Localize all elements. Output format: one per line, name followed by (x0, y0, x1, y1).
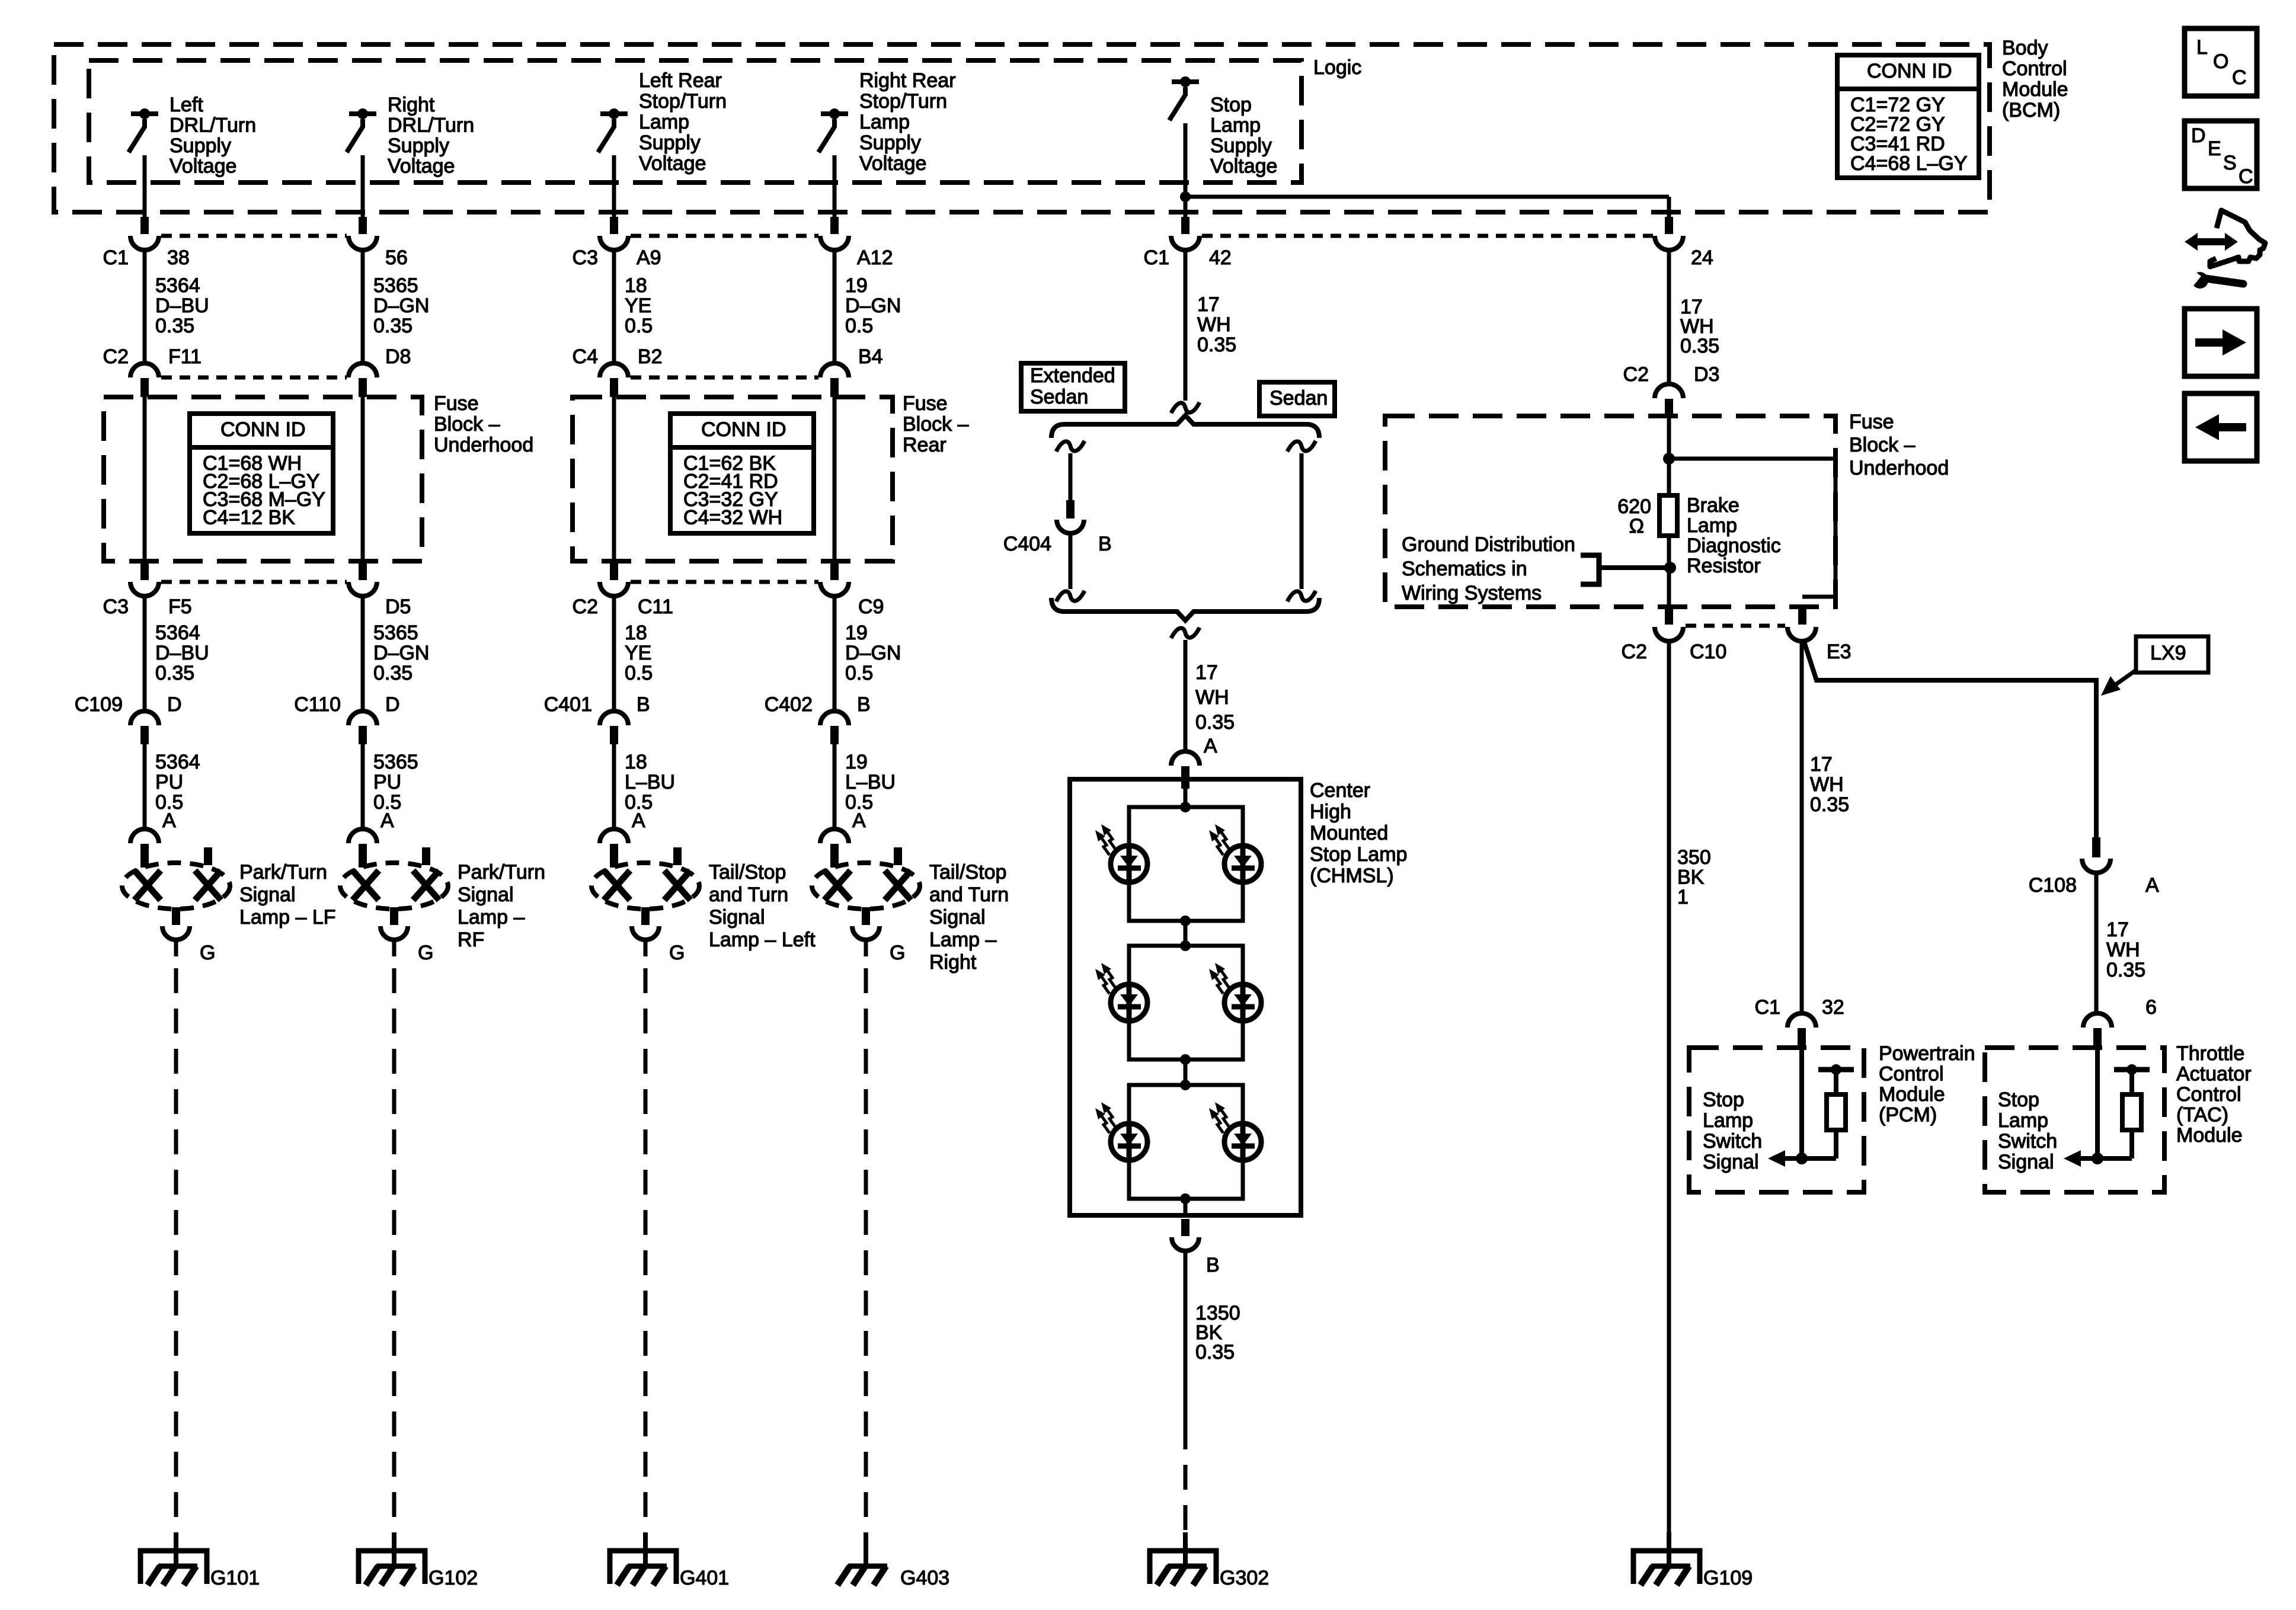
svg-text:D–BU: D–BU (155, 295, 209, 317)
svg-text:High: High (1310, 801, 1351, 823)
svg-text:Block –: Block – (1849, 434, 1916, 456)
svg-text:Right Rear: Right Rear (859, 69, 956, 92)
svg-text:Stop/Turn: Stop/Turn (859, 90, 947, 113)
svg-text:Extended: Extended (1030, 364, 1115, 387)
wire E3 diagonal to TAC branch (1803, 640, 2096, 837)
svg-text:0.35: 0.35 (373, 315, 412, 337)
wire corner down x=2816 (1667, 197, 1671, 217)
svg-text:C4=68 L–GY: C4=68 L–GY (1850, 152, 1968, 175)
dotted connector line row2 left pair (161, 376, 347, 380)
Center High Mounted Stop Lamp (CHMSL) box (1070, 779, 1301, 1215)
svg-text:Signal: Signal (1703, 1151, 1759, 1173)
svg-text:1: 1 (1677, 886, 1689, 908)
ground distribution bracket (1581, 555, 1599, 584)
svg-text:C2: C2 (1623, 363, 1649, 386)
svg-text:A: A (632, 809, 645, 832)
svg-text:Park/Turn: Park/Turn (239, 861, 327, 884)
wire through fuse block x=1036 (612, 396, 616, 565)
svg-text:Stop: Stop (1703, 1089, 1744, 1111)
svg-text:Switch: Switch (1703, 1130, 1762, 1153)
svg-text:Supply: Supply (639, 132, 701, 154)
Tail/Stop and Turn Signal Lamp - Right (812, 863, 920, 909)
resistor 620 ohm Brake Lamp Diagnostic Resistor (1659, 495, 1677, 536)
svg-text:B: B (1206, 1254, 1220, 1276)
wire C1-42 down to break (1184, 249, 1188, 401)
svg-text:5364: 5364 (155, 751, 200, 773)
svg-text:0.35: 0.35 (155, 662, 194, 684)
svg-text:E3: E3 (1827, 641, 1851, 663)
svg-text:D–GN: D–GN (373, 295, 429, 317)
svg-text:G109: G109 (1703, 1567, 1753, 1589)
junction ground distribution (1664, 562, 1676, 574)
svg-text:0.5: 0.5 (845, 662, 873, 684)
svg-text:19: 19 (845, 622, 868, 644)
ground G102 (392, 1532, 396, 1569)
LED right y=1927 (1224, 1124, 1261, 1160)
svg-text:CONN ID: CONN ID (220, 418, 306, 441)
svg-text:17: 17 (1810, 753, 1833, 776)
wire row3-row4 x=612 (361, 596, 365, 711)
svg-text:Lamp: Lamp (1998, 1109, 2048, 1132)
svg-text:19: 19 (845, 751, 868, 773)
node stop lamp branch (1180, 191, 1191, 202)
svg-text:C3: C3 (573, 247, 598, 269)
svg-text:D8: D8 (385, 345, 411, 368)
wire row1-row2 x=244 (143, 249, 147, 364)
svg-text:5364: 5364 (155, 622, 200, 644)
wire group3 to box bottom (1184, 1199, 1188, 1215)
svg-text:WH: WH (1195, 686, 1229, 709)
svg-text:17: 17 (1195, 661, 1218, 684)
wire row4-A x=1408 (833, 744, 837, 829)
svg-text:Fuse: Fuse (1849, 411, 1894, 433)
svg-text:(PCM): (PCM) (1879, 1104, 1937, 1126)
connector row 4: inline connectors (130, 711, 159, 725)
svg-text:B4: B4 (858, 345, 883, 368)
bypass wire down (1834, 459, 1838, 597)
wire to CHMSL A (1184, 640, 1188, 751)
svg-text:32: 32 (1822, 996, 1844, 1019)
svg-text:F11: F11 (168, 345, 202, 368)
svg-text:C108: C108 (2029, 874, 2077, 897)
wire break right branch top (1287, 441, 1316, 452)
svg-text:Left Rear: Left Rear (639, 69, 722, 92)
switch Right Rear Stop/Turn Lamp Supply Voltage (821, 111, 848, 116)
LED left y=1458 (1111, 846, 1147, 882)
wire break above brace (1171, 402, 1200, 413)
svg-text:5365: 5365 (373, 622, 418, 644)
wire break below brace (1171, 628, 1200, 638)
svg-text:C9: C9 (858, 596, 884, 618)
ground G101 (174, 1532, 178, 1569)
svg-text:0.35: 0.35 (1195, 1341, 1235, 1363)
svg-text:Stop/Turn: Stop/Turn (639, 90, 727, 113)
switch Right DRL/Turn Supply Voltage (349, 111, 376, 116)
svg-text:C1: C1 (1755, 996, 1780, 1019)
svg-text:5364: 5364 (155, 274, 200, 297)
svg-text:Control: Control (1879, 1063, 1944, 1086)
svg-text:Supply: Supply (388, 135, 449, 157)
svg-text:38: 38 (167, 247, 190, 269)
svg-text:Right: Right (388, 94, 435, 116)
wire through fuse block x=244 (143, 396, 147, 565)
svg-text:Lamp: Lamp (1210, 114, 1261, 137)
connector B CHMSL (1172, 1237, 1199, 1251)
svg-text:DRL/Turn: DRL/Turn (388, 114, 474, 137)
wire row4-A x=612 (361, 744, 365, 829)
svg-text:0.35: 0.35 (373, 662, 412, 684)
svg-text:Lamp –: Lamp – (458, 906, 525, 929)
ground G302 (1183, 1532, 1188, 1569)
svg-text:D: D (167, 693, 182, 716)
svg-text:YE: YE (625, 642, 651, 664)
svg-text:G: G (418, 942, 433, 964)
svg-text:L–BU: L–BU (625, 771, 675, 793)
svg-text:CONN ID: CONN ID (701, 418, 786, 441)
svg-text:Signal: Signal (929, 906, 986, 929)
Fuse Block - Underhood dashed box (104, 397, 422, 561)
wire switch to C-row1 x=1408 (833, 155, 837, 217)
svg-text:6: 6 (2145, 996, 2157, 1019)
svg-text:DRL/Turn: DRL/Turn (170, 114, 256, 137)
svg-text:B: B (857, 693, 871, 716)
svg-text:Ground Distribution: Ground Distribution (1402, 533, 1575, 556)
svg-text:D–GN: D–GN (845, 642, 901, 664)
svg-text:Lamp –: Lamp – (929, 929, 996, 951)
connector C108 (2082, 859, 2110, 873)
svg-text:D: D (385, 693, 400, 716)
wire E3 to PCM (1800, 640, 1804, 1013)
svg-text:Voltage: Voltage (639, 152, 706, 175)
connector A CHMSL (1171, 751, 1200, 766)
wire switch to C-row1 x=244 (143, 155, 147, 217)
svg-text:0.35: 0.35 (2106, 959, 2145, 981)
svg-text:C4=32 WH: C4=32 WH (683, 507, 782, 529)
svg-text:17: 17 (2106, 918, 2129, 941)
svg-text:C109: C109 (75, 693, 123, 716)
svg-text:C401: C401 (544, 693, 592, 716)
dotted connector line C10-E3 (1686, 624, 1785, 628)
svg-text:17: 17 (1197, 293, 1220, 316)
connector E3 (1787, 627, 1816, 641)
ground G403 (864, 1532, 868, 1569)
wire right branch (Sedan) (1300, 453, 1304, 589)
svg-text:L: L (2196, 36, 2208, 59)
wire row3-row4 x=1036 (612, 596, 616, 711)
svg-text:Block –: Block – (434, 413, 500, 436)
svg-text:0.35: 0.35 (1197, 334, 1236, 356)
svg-text:0.35: 0.35 (155, 315, 194, 337)
svg-text:Block –: Block – (903, 413, 969, 436)
svg-text:Lamp: Lamp (639, 111, 689, 133)
svg-text:(BCM): (BCM) (2002, 99, 2060, 121)
svg-text:WH: WH (1197, 313, 1231, 336)
svg-text:Voltage: Voltage (388, 155, 455, 178)
TAC stop lamp switch signal circuit (2095, 1050, 2100, 1158)
connector 6 TAC (2083, 1013, 2112, 1028)
svg-text:O: O (2213, 50, 2228, 73)
svg-text:L–BU: L–BU (845, 771, 896, 793)
svg-text:Underhood: Underhood (1849, 457, 1949, 479)
svg-text:C4=12 BK: C4=12 BK (203, 507, 295, 529)
svg-text:0.5: 0.5 (625, 662, 653, 684)
svg-text:C404: C404 (1003, 533, 1051, 555)
svg-text:Module: Module (2002, 78, 2068, 101)
wire row1-row2 x=612 (361, 249, 365, 364)
svg-text:350: 350 (1677, 846, 1711, 869)
icon LOC box (2185, 28, 2257, 96)
bypass wire right (1669, 457, 1835, 461)
svg-text:LX9: LX9 (2150, 642, 2186, 664)
Extended Sedan tag box (1021, 363, 1125, 411)
svg-text:Tail/Stop: Tail/Stop (929, 861, 1006, 884)
svg-text:Left: Left (170, 94, 203, 116)
wire row1-row2 x=1036 (612, 249, 616, 364)
svg-text:Body: Body (2002, 37, 2048, 59)
svg-text:C1: C1 (1144, 247, 1169, 269)
dotted connector line row3 mid pair (631, 580, 818, 584)
connector row 2: fuse block inputs (130, 363, 159, 377)
svg-text:D: D (2191, 124, 2206, 147)
svg-text:PU: PU (373, 771, 401, 793)
wire row3-row4 x=1408 (833, 596, 837, 711)
svg-text:Signal: Signal (239, 884, 296, 906)
svg-text:Lamp: Lamp (1703, 1109, 1753, 1132)
svg-text:A: A (380, 809, 394, 832)
pin C404 B (1066, 500, 1075, 518)
svg-text:C2: C2 (103, 345, 129, 368)
svg-text:0.5: 0.5 (845, 315, 873, 337)
PCM stop lamp switch signal circuit (1799, 1050, 1804, 1158)
svg-text:Module: Module (1879, 1083, 1945, 1106)
svg-text:D–BU: D–BU (155, 642, 209, 664)
svg-text:Fuse: Fuse (434, 392, 479, 415)
connector row 5: lamp A connectors (130, 829, 159, 843)
harness option brace bottom (1051, 598, 1319, 620)
svg-text:WH: WH (2106, 939, 2140, 961)
LX9 tag box (2136, 636, 2208, 673)
svg-text:F5: F5 (168, 596, 192, 618)
svg-text:Schematics in: Schematics in (1402, 558, 1527, 580)
switch Left DRL/Turn Supply Voltage (131, 111, 158, 116)
svg-text:Center: Center (1310, 779, 1370, 802)
LED group rect y=1596 (1129, 946, 1243, 1060)
svg-text:18: 18 (625, 622, 647, 644)
wire left branch lower (1069, 533, 1073, 589)
svg-text:and Turn: and Turn (709, 884, 788, 906)
Powertrain Control Module (PCM) dashed box (1689, 1048, 1864, 1192)
svg-text:A: A (2145, 874, 2159, 897)
svg-text:E: E (2208, 137, 2221, 160)
pin C108 A (2092, 837, 2100, 857)
LED left y=1927 (1111, 1124, 1147, 1160)
svg-text:(CHMSL): (CHMSL) (1310, 865, 1394, 887)
icon arrow-left box (2185, 393, 2257, 461)
CONN ID table (fuse block rear) (670, 414, 814, 533)
svg-text:C2: C2 (573, 596, 598, 618)
LED right y=1458 (1224, 846, 1261, 882)
svg-text:Signal: Signal (1998, 1151, 2054, 1173)
dotted connector line row1 right pair (1202, 234, 1653, 238)
pin B CHMSL (1181, 1219, 1189, 1236)
wire break left branch top (1056, 441, 1085, 452)
svg-text:D–GN: D–GN (373, 642, 429, 664)
svg-text:A: A (852, 809, 866, 832)
connector row 3: fuse block outputs (140, 563, 149, 580)
svg-text:PU: PU (155, 771, 183, 793)
svg-text:0.35: 0.35 (1195, 711, 1235, 734)
svg-text:C4: C4 (573, 345, 598, 368)
svg-text:Park/Turn: Park/Turn (458, 861, 545, 884)
Body Control Module (BCM) dashed box (54, 44, 1990, 212)
svg-text:18: 18 (625, 751, 647, 773)
icon arrow-right box (2185, 309, 2257, 376)
dotted connector line row1 mid pair (631, 234, 818, 238)
wire D3 to resistor (1667, 416, 1671, 495)
wire stop switch down (1184, 123, 1188, 217)
svg-text:B: B (1098, 533, 1112, 555)
wire row3-row4 x=244 (143, 596, 147, 711)
CONN ID table (fuse block underhood) (190, 414, 333, 533)
switch Left Rear Stop/Turn Lamp Supply Voltage (600, 111, 628, 116)
wire row4-A x=244 (143, 744, 147, 829)
ground G401 (643, 1532, 648, 1569)
svg-text:WH: WH (1810, 773, 1844, 796)
svg-text:56: 56 (385, 247, 408, 269)
svg-text:YE: YE (625, 295, 651, 317)
wire left branch (Extended Sedan) (1069, 453, 1073, 500)
svg-text:Ω: Ω (1629, 515, 1644, 537)
svg-text:Rear: Rear (903, 434, 946, 456)
wire switch to C-row1 x=612 (361, 155, 365, 217)
svg-text:19: 19 (845, 274, 868, 297)
icon DESC box (2185, 121, 2257, 188)
svg-text:Powertrain: Powertrain (1879, 1042, 1975, 1065)
svg-text:Stop Lamp: Stop Lamp (1310, 843, 1407, 866)
svg-text:Diagnostic: Diagnostic (1687, 534, 1781, 557)
svg-text:C10: C10 (1690, 641, 1726, 663)
connector C2/C10 (1655, 627, 1683, 641)
svg-text:C3: C3 (103, 596, 129, 618)
Fuse Block - Rear dashed box (573, 397, 893, 561)
wire through fuse block x=612 (361, 396, 365, 565)
CHMSL internal wiring (1184, 789, 1188, 807)
wire through fuse block x=1408 (833, 396, 837, 565)
link group2-group3 (1184, 1060, 1188, 1085)
svg-text:0.35: 0.35 (1680, 335, 1719, 357)
svg-text:Stop: Stop (1210, 94, 1252, 116)
svg-text:B2: B2 (638, 345, 663, 368)
svg-text:BK: BK (1677, 866, 1705, 889)
svg-text:Actuator: Actuator (2176, 1063, 2252, 1086)
svg-text:S: S (2223, 152, 2237, 174)
svg-text:G101: G101 (210, 1567, 260, 1589)
wire branch to 24 (1185, 195, 1669, 199)
svg-text:Voltage: Voltage (859, 152, 926, 175)
LED group rect y=1831 (1129, 1085, 1243, 1199)
svg-text:C1: C1 (103, 247, 129, 269)
wire C108 to TAC (2094, 873, 2099, 1013)
LX9 arrow (2116, 670, 2136, 684)
Fuse Block - Underhood (right) dashed box (1385, 416, 1835, 607)
connector C2/D3 (1655, 384, 1683, 398)
svg-text:Wiring Systems: Wiring Systems (1402, 582, 1542, 604)
svg-text:A9: A9 (637, 247, 661, 269)
Tail/Stop and Turn Signal Lamp - Left (591, 863, 699, 909)
svg-text:G102: G102 (428, 1567, 478, 1589)
dotted connector line row3 left pair (161, 580, 347, 584)
svg-text:Switch: Switch (1998, 1130, 2057, 1153)
svg-text:Fuse: Fuse (903, 392, 948, 415)
svg-text:Logic: Logic (1313, 56, 1361, 79)
dashed wire to G302 (1184, 1425, 1188, 1532)
wire break left branch bottom (1056, 591, 1085, 601)
svg-text:Supply: Supply (170, 135, 231, 157)
junction to bypass (1663, 453, 1675, 465)
svg-text:Signal: Signal (709, 906, 765, 929)
svg-text:(TAC): (TAC) (2176, 1104, 2228, 1126)
svg-text:Throttle: Throttle (2176, 1042, 2244, 1065)
LED right y=1692 (1224, 984, 1261, 1021)
pin C10 (1665, 608, 1673, 625)
svg-text:CONN ID: CONN ID (1867, 60, 1952, 82)
connector C1/32 PCM (1787, 1013, 1816, 1028)
wire CHMSL to dashed (1184, 1251, 1188, 1425)
harness option brace top (1051, 415, 1319, 438)
svg-text:Lamp: Lamp (859, 111, 910, 133)
svg-text:Lamp: Lamp (1687, 514, 1737, 537)
svg-text:G403: G403 (900, 1567, 949, 1589)
wire row1-row2 x=1408 (833, 249, 837, 364)
svg-text:C: C (2239, 165, 2253, 188)
svg-text:A12: A12 (857, 247, 893, 269)
svg-text:Control: Control (2176, 1083, 2241, 1106)
svg-text:Lamp – Left: Lamp – Left (709, 929, 816, 951)
svg-text:Lamp – LF: Lamp – LF (239, 906, 336, 929)
pin E3 (1798, 608, 1806, 625)
connector C404 (1057, 520, 1084, 533)
svg-text:B: B (637, 693, 650, 716)
svg-text:Brake: Brake (1687, 494, 1739, 517)
bypass wire left to E3 (1802, 595, 1835, 599)
svg-text:Sedan: Sedan (1030, 386, 1088, 408)
svg-text:G302: G302 (1220, 1567, 1269, 1589)
svg-text:D5: D5 (385, 596, 411, 618)
svg-text:Right: Right (929, 951, 977, 974)
icon repair tools (double arrow, harness outline, wrench) (2185, 210, 2265, 289)
svg-text:Tail/Stop: Tail/Stop (709, 861, 786, 884)
svg-text:Voltage: Voltage (1210, 155, 1277, 178)
svg-text:C: C (2232, 66, 2247, 89)
svg-text:G401: G401 (680, 1567, 729, 1589)
Logic dashed box (89, 60, 1302, 183)
switch Stop Lamp Supply Voltage (1172, 79, 1199, 84)
svg-text:Module: Module (2176, 1124, 2243, 1147)
svg-text:D3: D3 (1694, 363, 1719, 386)
svg-text:D–GN: D–GN (845, 295, 901, 317)
svg-text:Voltage: Voltage (170, 155, 236, 178)
LED group rect y=1362 (1129, 807, 1243, 921)
svg-text:C402: C402 (765, 693, 813, 716)
Sedan tag box (1259, 382, 1335, 416)
svg-text:Underhood: Underhood (434, 434, 533, 456)
dotted connector line row2 mid pair (631, 376, 818, 380)
LED left y=1692 (1111, 984, 1147, 1021)
CONN ID table (BCM) (1837, 55, 1979, 178)
wire break right branch bottom (1287, 591, 1316, 601)
svg-text:Sedan: Sedan (1269, 387, 1328, 409)
svg-text:Supply: Supply (1210, 135, 1272, 157)
